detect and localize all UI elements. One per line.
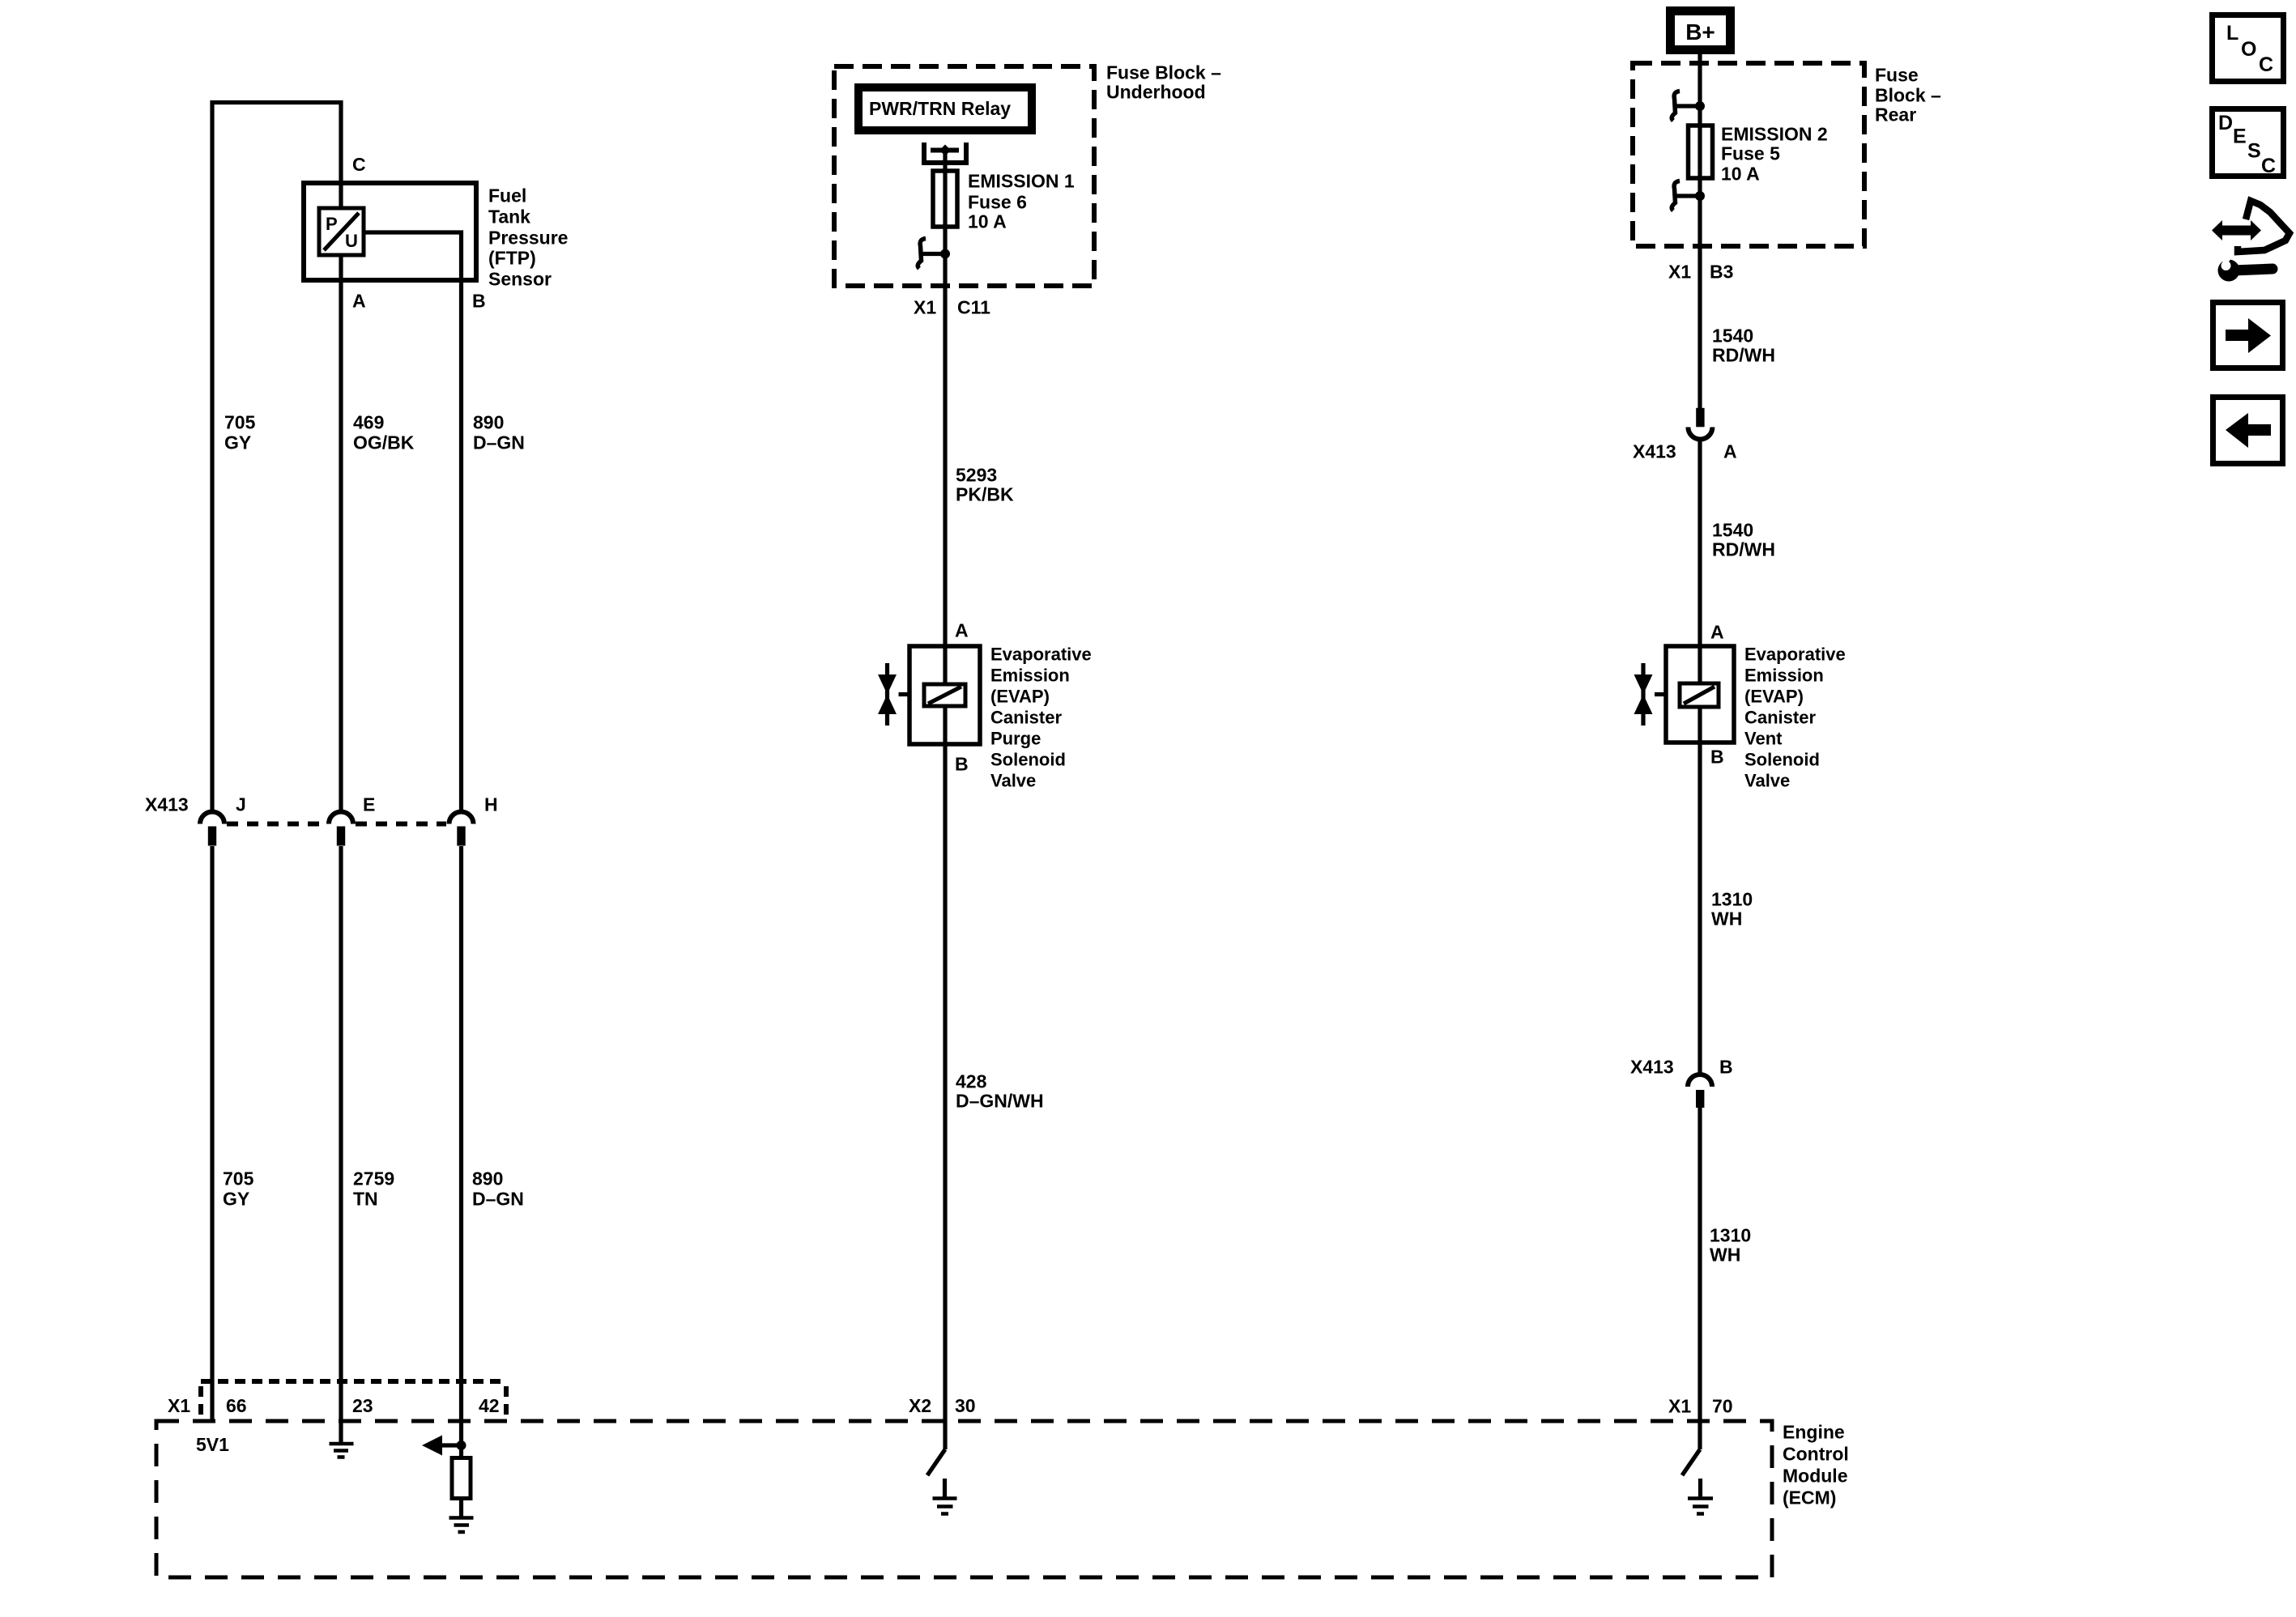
svg-text:RD/WH: RD/WH xyxy=(1712,539,1775,560)
svg-text:Module: Module xyxy=(1783,1466,1848,1487)
svg-text:D–GN/WH: D–GN/WH xyxy=(956,1091,1044,1112)
svg-text:705: 705 xyxy=(223,1168,254,1189)
svg-text:C: C xyxy=(2261,155,2276,177)
svg-text:469: 469 xyxy=(353,412,384,433)
svg-text:B: B xyxy=(955,754,969,775)
svg-text:E: E xyxy=(2233,126,2247,148)
svg-text:890: 890 xyxy=(472,1168,503,1189)
svg-text:2759: 2759 xyxy=(353,1168,394,1189)
svg-text:23: 23 xyxy=(352,1395,373,1416)
svg-text:C11: C11 xyxy=(957,297,990,318)
svg-text:D: D xyxy=(2218,112,2233,134)
svg-text:Canister: Canister xyxy=(990,708,1062,728)
svg-text:Vent: Vent xyxy=(1744,729,1783,749)
svg-text:O: O xyxy=(2241,38,2256,61)
svg-text:A: A xyxy=(1710,622,1724,643)
svg-text:H: H xyxy=(484,794,498,815)
svg-text:PK/BK: PK/BK xyxy=(956,484,1014,505)
svg-text:10 A: 10 A xyxy=(1721,164,1760,185)
svg-text:X413: X413 xyxy=(1633,441,1676,462)
svg-text:B: B xyxy=(1719,1057,1733,1078)
svg-text:GY: GY xyxy=(223,1189,249,1210)
svg-text:5293: 5293 xyxy=(956,465,997,486)
svg-text:X1: X1 xyxy=(168,1395,190,1416)
svg-text:Pressure: Pressure xyxy=(488,228,568,249)
svg-text:WH: WH xyxy=(1710,1245,1740,1266)
svg-text:L: L xyxy=(2226,22,2238,45)
svg-text:B: B xyxy=(472,291,486,312)
svg-text:B+: B+ xyxy=(1685,19,1715,45)
svg-text:Underhood: Underhood xyxy=(1106,82,1206,103)
svg-text:GY: GY xyxy=(224,432,251,453)
svg-text:Fuse 5: Fuse 5 xyxy=(1721,143,1780,164)
svg-text:70: 70 xyxy=(1712,1396,1733,1417)
svg-text:1310: 1310 xyxy=(1711,889,1753,910)
svg-text:428: 428 xyxy=(956,1071,987,1092)
svg-text:1540: 1540 xyxy=(1712,326,1753,347)
svg-text:EMISSION 1: EMISSION 1 xyxy=(968,171,1075,192)
svg-text:X413: X413 xyxy=(145,794,189,815)
svg-text:S: S xyxy=(2247,140,2261,163)
svg-text:Evaporative: Evaporative xyxy=(1744,645,1846,665)
svg-text:Fuse 6: Fuse 6 xyxy=(968,192,1027,213)
svg-text:A: A xyxy=(352,291,366,312)
svg-text:Fuel: Fuel xyxy=(488,185,526,206)
svg-text:(FTP): (FTP) xyxy=(488,248,536,269)
svg-text:1540: 1540 xyxy=(1712,520,1753,541)
svg-text:X1: X1 xyxy=(1668,262,1691,283)
svg-text:EMISSION 2: EMISSION 2 xyxy=(1721,124,1828,145)
svg-text:J: J xyxy=(236,794,246,815)
svg-text:66: 66 xyxy=(226,1395,247,1416)
svg-text:1310: 1310 xyxy=(1710,1225,1751,1246)
svg-text:WH: WH xyxy=(1711,908,1742,930)
svg-text:Engine: Engine xyxy=(1783,1422,1845,1443)
svg-text:X413: X413 xyxy=(1630,1057,1674,1078)
svg-text:A: A xyxy=(955,620,969,641)
svg-text:Canister: Canister xyxy=(1744,708,1816,728)
svg-text:890: 890 xyxy=(473,412,504,433)
svg-text:10 A: 10 A xyxy=(968,211,1007,232)
svg-text:C: C xyxy=(2259,53,2273,76)
svg-text:Block –: Block – xyxy=(1875,85,1941,106)
svg-text:30: 30 xyxy=(955,1395,976,1416)
svg-text:E: E xyxy=(363,794,375,815)
svg-text:X2: X2 xyxy=(909,1395,931,1416)
svg-text:Emission: Emission xyxy=(1744,666,1824,686)
svg-text:(ECM): (ECM) xyxy=(1783,1487,1836,1508)
svg-text:Valve: Valve xyxy=(1744,771,1790,791)
svg-text:Control: Control xyxy=(1783,1444,1849,1465)
svg-text:Emission: Emission xyxy=(990,666,1070,686)
svg-text:P: P xyxy=(326,214,338,234)
svg-text:RD/WH: RD/WH xyxy=(1712,345,1775,366)
svg-text:Valve: Valve xyxy=(990,771,1036,791)
svg-text:OG/BK: OG/BK xyxy=(353,432,415,453)
svg-text:Solenoid: Solenoid xyxy=(1744,750,1820,770)
svg-text:Solenoid: Solenoid xyxy=(990,750,1066,770)
svg-text:D–GN: D–GN xyxy=(473,432,525,453)
svg-text:Rear: Rear xyxy=(1875,104,1916,126)
svg-text:Tank: Tank xyxy=(488,206,530,228)
svg-text:Sensor: Sensor xyxy=(488,269,552,290)
svg-text:Fuse: Fuse xyxy=(1875,65,1919,86)
svg-text:Fuse Block –: Fuse Block – xyxy=(1106,62,1221,83)
svg-text:X1: X1 xyxy=(1668,1396,1691,1417)
svg-text:Purge: Purge xyxy=(990,729,1041,749)
svg-text:B3: B3 xyxy=(1710,262,1733,283)
svg-text:(EVAP): (EVAP) xyxy=(990,687,1050,707)
svg-text:42: 42 xyxy=(479,1395,500,1416)
svg-text:X1: X1 xyxy=(914,297,936,318)
svg-text:705: 705 xyxy=(224,412,256,433)
svg-text:PWR/TRN Relay: PWR/TRN Relay xyxy=(869,98,1011,119)
svg-text:A: A xyxy=(1723,441,1737,462)
svg-text:TN: TN xyxy=(353,1189,378,1210)
svg-text:D–GN: D–GN xyxy=(472,1189,524,1210)
svg-text:B: B xyxy=(1710,747,1724,768)
svg-text:U: U xyxy=(345,231,358,251)
svg-text:Evaporative: Evaporative xyxy=(990,645,1092,665)
svg-text:(EVAP): (EVAP) xyxy=(1744,687,1804,707)
svg-text:C: C xyxy=(352,154,366,175)
svg-text:5V1: 5V1 xyxy=(196,1434,229,1455)
